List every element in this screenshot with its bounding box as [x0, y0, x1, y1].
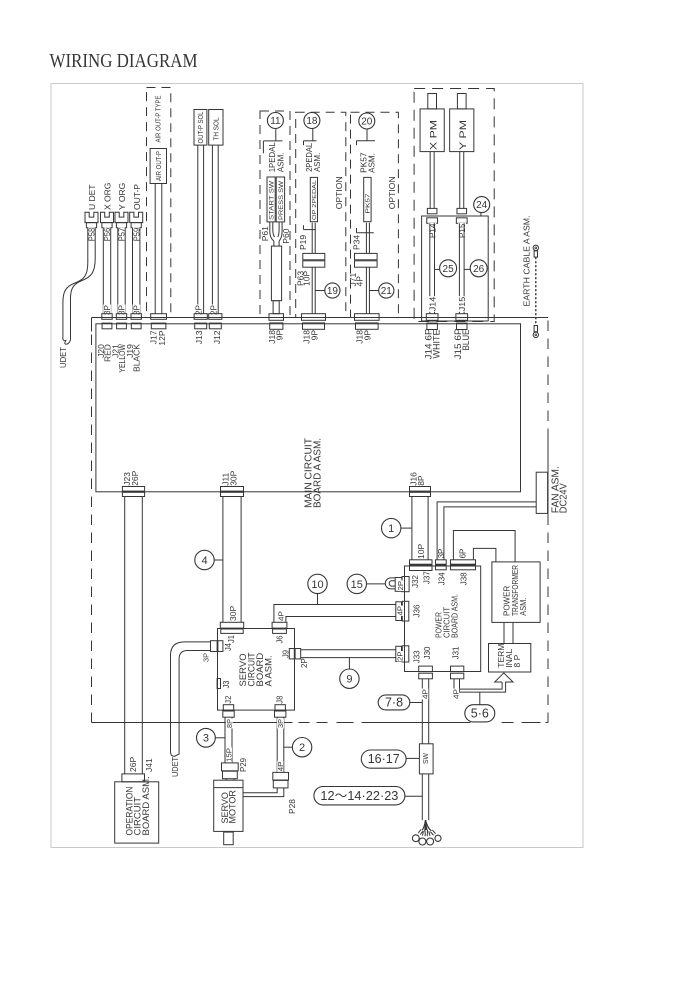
svg-text:7·8: 7·8: [385, 696, 403, 710]
svg-text:OUT-P SOL: OUT-P SOL: [198, 111, 205, 143]
svg-text:6P: 6P: [458, 549, 467, 559]
svg-text:2P: 2P: [300, 658, 309, 668]
svg-text:J32: J32: [411, 574, 420, 587]
svg-text:P34: P34: [351, 235, 361, 250]
svg-text:16·17: 16·17: [368, 752, 400, 766]
svg-text:OUT-P: OUT-P: [132, 184, 142, 210]
svg-text:9P: 9P: [309, 330, 319, 341]
svg-text:J14: J14: [427, 296, 437, 311]
svg-text:10: 10: [311, 579, 323, 591]
svg-text:Y PM: Y PM: [458, 120, 469, 150]
svg-text:2: 2: [299, 742, 305, 754]
svg-text:10P: 10P: [416, 544, 426, 559]
svg-text:J38: J38: [460, 572, 469, 585]
svg-text:BOARD A ASM.: BOARD A ASM.: [313, 438, 324, 508]
svg-text:2P: 2P: [398, 651, 405, 661]
svg-text:OP 2PEDAL: OP 2PEDAL: [312, 180, 318, 220]
svg-text:1: 1: [388, 523, 394, 535]
svg-text:U DET: U DET: [87, 185, 97, 211]
svg-text:Y ORG: Y ORG: [117, 183, 127, 210]
svg-text:WHITE: WHITE: [431, 330, 441, 359]
svg-text:START SW: START SW: [270, 181, 276, 220]
svg-text:8 P: 8 P: [512, 654, 522, 667]
svg-text:J4: J4: [224, 642, 233, 651]
svg-text:12～14·22·23: 12～14·22·23: [320, 789, 398, 803]
svg-text:3P: 3P: [202, 653, 211, 662]
svg-text:J9: J9: [282, 649, 291, 658]
svg-text:SW: SW: [421, 752, 430, 764]
svg-text:24: 24: [476, 200, 488, 211]
svg-text:J13: J13: [194, 330, 204, 344]
svg-text:25: 25: [443, 264, 455, 275]
svg-text:OPTION: OPTION: [387, 176, 397, 209]
svg-text:J33: J33: [413, 650, 422, 663]
svg-text:WIRING DIAGRAM: WIRING DIAGRAM: [50, 50, 198, 72]
svg-text:OPTION: OPTION: [334, 176, 344, 209]
svg-text:11: 11: [270, 116, 281, 127]
svg-text:J30: J30: [423, 646, 432, 659]
svg-text:21: 21: [381, 286, 393, 297]
svg-text:8P: 8P: [416, 475, 426, 486]
svg-text:P28: P28: [288, 798, 297, 814]
svg-text:A ASM.: A ASM.: [264, 655, 275, 686]
svg-text:PRESS SW: PRESS SW: [279, 181, 285, 220]
svg-text:BLUE: BLUE: [461, 330, 471, 351]
svg-text:4P: 4P: [354, 276, 364, 287]
svg-text:BOARD ASM.: BOARD ASM.: [141, 776, 152, 835]
svg-text:4: 4: [201, 555, 207, 567]
svg-text:4P: 4P: [421, 689, 430, 699]
svg-text:19: 19: [327, 286, 339, 297]
svg-text:30P: 30P: [228, 470, 238, 485]
svg-text:P19: P19: [298, 235, 308, 250]
svg-text:AIR OUT-P TYPE: AIR OUT-P TYPE: [154, 96, 163, 143]
svg-text:J36: J36: [413, 604, 422, 617]
svg-text:ASM.: ASM.: [519, 598, 528, 616]
svg-text:J15: J15: [457, 296, 467, 311]
svg-text:26P: 26P: [130, 470, 140, 485]
svg-text:9: 9: [346, 674, 352, 686]
svg-text:3: 3: [203, 733, 209, 745]
svg-text:10P: 10P: [302, 271, 312, 286]
svg-text:J34: J34: [437, 572, 446, 585]
svg-text:UDET: UDET: [170, 757, 180, 777]
svg-text:BLACK: BLACK: [132, 344, 142, 372]
svg-text:P15: P15: [457, 223, 467, 238]
svg-text:UDET: UDET: [58, 347, 68, 368]
svg-text:26P: 26P: [128, 757, 138, 772]
svg-text:X PM: X PM: [428, 120, 439, 150]
svg-text:8P: 8P: [225, 719, 234, 728]
svg-text:PK57: PK57: [365, 193, 371, 213]
svg-text:4P: 4P: [452, 689, 461, 699]
svg-text:9P: 9P: [275, 330, 285, 341]
svg-text:4P: 4P: [278, 761, 285, 771]
svg-text:J2: J2: [224, 695, 233, 704]
svg-text:3P: 3P: [437, 549, 446, 559]
svg-text:POWER: POWER: [502, 586, 511, 616]
svg-text:15P: 15P: [226, 748, 233, 762]
svg-text:ASM.: ASM.: [312, 153, 322, 172]
svg-text:DC24V: DC24V: [559, 483, 570, 513]
svg-text:P60: P60: [281, 228, 291, 243]
svg-text:3P: 3P: [276, 719, 285, 728]
svg-text:BOARD ASM.: BOARD ASM.: [450, 594, 460, 638]
svg-text:J6: J6: [275, 635, 284, 644]
svg-text:20: 20: [361, 117, 373, 128]
svg-text:12P: 12P: [157, 330, 167, 345]
svg-text:15: 15: [351, 579, 363, 591]
svg-text:9P: 9P: [362, 330, 372, 341]
svg-text:4P: 4P: [277, 611, 286, 621]
svg-text:J37: J37: [422, 571, 431, 584]
svg-text:ASM.: ASM.: [275, 152, 285, 172]
svg-text:4P: 4P: [398, 606, 405, 616]
svg-text:J3: J3: [222, 680, 231, 689]
svg-text:J12: J12: [212, 330, 222, 344]
svg-text:P14: P14: [428, 223, 438, 238]
svg-text:AIR OUT-P: AIR OUT-P: [156, 151, 163, 181]
svg-text:J1: J1: [227, 634, 236, 643]
svg-text:P61: P61: [260, 226, 270, 241]
svg-text:TH SOL: TH SOL: [214, 117, 221, 140]
svg-text:P29: P29: [239, 757, 248, 772]
svg-text:J41: J41: [144, 758, 154, 772]
svg-text:26: 26: [473, 264, 485, 275]
svg-text:EARTH CABLE A ASM.: EARTH CABLE A ASM.: [523, 216, 532, 307]
svg-text:X ORG: X ORG: [103, 183, 113, 210]
svg-text:18: 18: [306, 116, 318, 127]
svg-text:J31: J31: [451, 646, 460, 659]
svg-text:ASM.: ASM.: [366, 153, 376, 173]
svg-text:MOTOR: MOTOR: [227, 790, 237, 824]
svg-text:J8: J8: [276, 695, 285, 704]
svg-text:30P: 30P: [228, 606, 238, 621]
svg-text:5·6: 5·6: [471, 706, 489, 720]
